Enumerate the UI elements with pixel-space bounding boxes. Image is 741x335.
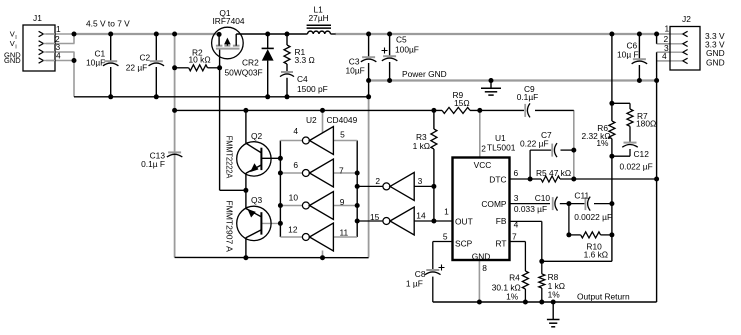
svg-text:C2: C2 [140,53,151,63]
svg-text:11: 11 [340,227,349,237]
svg-text:4: 4 [662,51,667,61]
svg-text:CD4049: CD4049 [327,115,358,125]
svg-text:0.0022 µF: 0.0022 µF [574,212,612,222]
svg-text:C12: C12 [634,149,650,159]
svg-text:7: 7 [512,231,517,241]
svg-text:CR2: CR2 [242,58,259,68]
svg-text:1.6 kΩ: 1.6 kΩ [584,249,608,259]
svg-text:V: V [10,30,15,39]
svg-text:U2: U2 [306,115,317,125]
svg-text:FB: FB [496,216,507,226]
svg-text:4: 4 [56,51,61,61]
svg-text:FMMT2907 A: FMMT2907 A [224,200,233,252]
svg-text:6: 6 [293,160,298,170]
svg-text:0.033 µF: 0.033 µF [514,204,547,214]
svg-text:3.3 Ω: 3.3 Ω [295,55,315,65]
svg-text:DTC: DTC [489,175,506,185]
svg-text:R4: R4 [509,273,520,283]
svg-text:9: 9 [340,197,345,207]
svg-text:1 kΩ: 1 kΩ [413,141,430,151]
svg-text:3: 3 [514,193,519,203]
svg-text:4: 4 [514,220,519,230]
svg-text:27µH: 27µH [309,13,329,23]
svg-text:7: 7 [339,166,344,176]
svg-text:SCP: SCP [455,238,473,248]
svg-text:0.1µ F: 0.1µ F [141,159,165,169]
svg-text:RT: RT [495,238,506,248]
svg-text:C10: C10 [535,193,551,203]
svg-text:5: 5 [340,130,345,140]
svg-text:0.22 µF: 0.22 µF [520,139,549,149]
svg-text:15: 15 [370,212,380,222]
svg-text:50WQ03F: 50WQ03F [225,68,263,78]
svg-text:J1: J1 [33,13,42,23]
svg-text:Output Return: Output Return [577,292,630,302]
svg-text:1: 1 [665,24,670,34]
svg-text:C8: C8 [415,269,426,279]
svg-text:10: 10 [289,193,299,203]
svg-text:J2: J2 [682,14,691,24]
svg-text:C4: C4 [297,74,308,84]
svg-text:0.022 µF: 0.022 µF [620,161,653,171]
svg-text:12: 12 [288,225,298,235]
svg-text:10µF: 10µF [86,58,105,68]
svg-text:1: 1 [56,24,61,34]
svg-text:Q2: Q2 [251,131,263,141]
svg-text:COMP: COMP [481,199,507,209]
svg-text:1%: 1% [506,292,519,302]
svg-text:6: 6 [514,168,519,178]
svg-text:GND: GND [4,56,21,65]
svg-text:GND: GND [472,251,491,261]
svg-text:1500 pF: 1500 pF [297,84,328,94]
svg-text:V: V [10,39,15,48]
svg-text:8: 8 [482,263,487,273]
svg-text:180Ω: 180Ω [636,119,656,129]
svg-text:22 µF: 22 µF [126,63,148,73]
svg-text:5: 5 [443,231,448,241]
svg-text:2: 2 [481,144,486,154]
svg-text:1 µF: 1 µF [406,279,423,289]
svg-text:10µF: 10µF [346,66,365,76]
svg-text:IRF7404: IRF7404 [212,16,244,26]
svg-text:14: 14 [416,211,426,221]
svg-text:C5: C5 [396,35,407,45]
svg-text:10µ F: 10µ F [617,50,639,60]
svg-text:1: 1 [444,206,449,216]
svg-text:OUT: OUT [455,216,473,226]
svg-text:3: 3 [418,176,423,186]
svg-text:10 kΩ: 10 kΩ [189,55,211,65]
svg-text:U1: U1 [495,133,506,143]
svg-text:4.5 V to 7 V: 4.5 V to 7 V [86,19,130,29]
svg-text:100µF: 100µF [395,45,419,55]
svg-text:0.1µF: 0.1µF [517,92,539,102]
svg-text:GND: GND [706,58,725,68]
svg-text:15Ω: 15Ω [454,98,470,108]
svg-text:1%: 1% [548,289,561,299]
svg-text:Power GND: Power GND [402,69,447,79]
svg-text:2: 2 [375,176,380,186]
svg-text:FMMT2222A: FMMT2222A [224,136,233,179]
svg-text:C11: C11 [574,191,589,201]
svg-text:R5 47 kΩ: R5 47 kΩ [536,168,571,178]
svg-text:1%: 1% [596,138,609,148]
svg-text:4: 4 [293,126,298,136]
svg-text:VCC: VCC [474,160,492,170]
svg-text:TL5001: TL5001 [487,143,516,153]
svg-text:Q3: Q3 [251,195,263,205]
